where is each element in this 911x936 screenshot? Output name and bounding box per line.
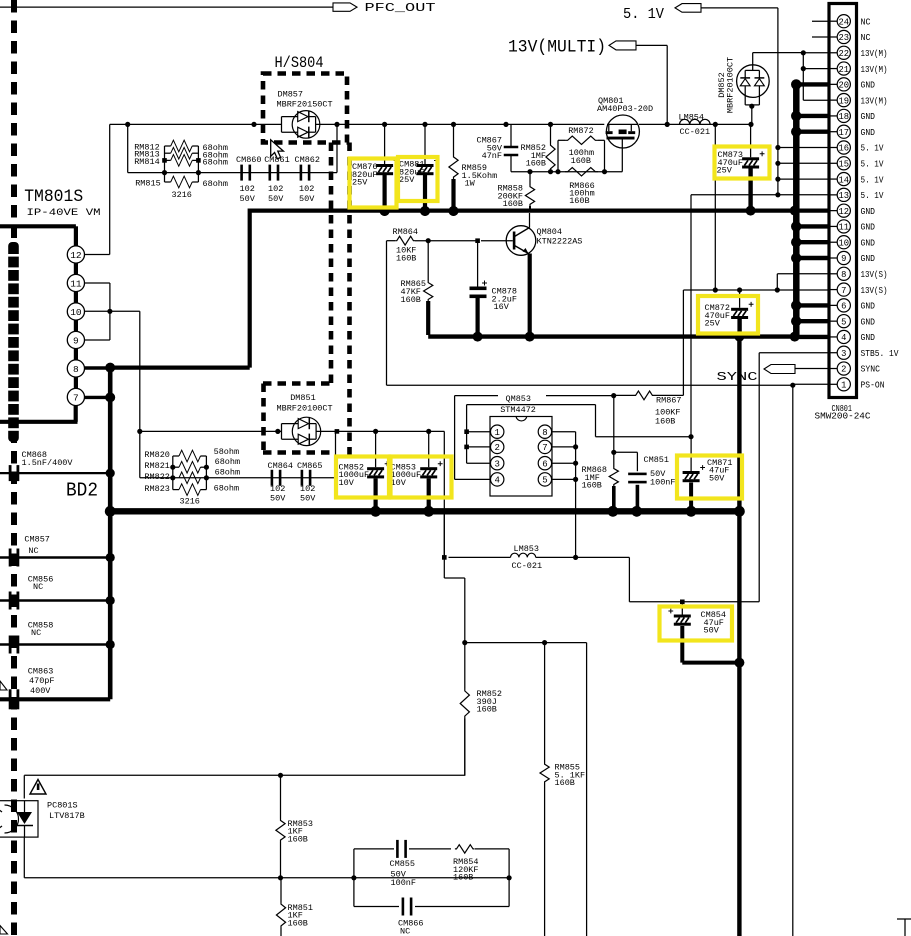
svg-text:160B: 160B xyxy=(555,778,575,788)
svg-text:PFC_OUT: PFC_OUT xyxy=(365,1,436,15)
svg-text:13V(M): 13V(M) xyxy=(861,96,888,106)
svg-text:CM863: CM863 xyxy=(28,667,54,677)
svg-text:13: 13 xyxy=(839,191,850,201)
svg-text:RM814: RM814 xyxy=(134,157,160,167)
svg-text:102: 102 xyxy=(268,184,283,194)
svg-text:STM4472: STM4472 xyxy=(500,405,536,415)
svg-text:RM864: RM864 xyxy=(393,227,419,237)
svg-text:58ohm: 58ohm xyxy=(214,447,240,457)
svg-text:25V: 25V xyxy=(399,175,415,185)
svg-text:RM872: RM872 xyxy=(568,126,594,136)
svg-text:IP-40VE VM: IP-40VE VM xyxy=(27,207,101,219)
svg-text:11: 11 xyxy=(839,223,850,233)
svg-text:TM801S: TM801S xyxy=(24,187,83,207)
svg-text:50V: 50V xyxy=(268,194,284,204)
svg-text:RM821: RM821 xyxy=(144,461,170,471)
svg-text:160B: 160B xyxy=(569,196,589,206)
svg-text:102: 102 xyxy=(299,184,314,194)
svg-text:16V: 16V xyxy=(494,302,510,312)
svg-text:5. 1V: 5. 1V xyxy=(861,159,885,169)
svg-text:3216: 3216 xyxy=(172,190,192,200)
svg-text:CC-021: CC-021 xyxy=(512,561,543,571)
svg-text:7: 7 xyxy=(73,392,79,403)
svg-text:100nF: 100nF xyxy=(391,878,417,888)
svg-text:RM867: RM867 xyxy=(656,396,682,406)
svg-text:160B: 160B xyxy=(571,156,591,166)
svg-text:20: 20 xyxy=(839,81,850,91)
svg-text:RM815: RM815 xyxy=(135,178,161,188)
svg-text:7: 7 xyxy=(841,286,846,296)
svg-text:4: 4 xyxy=(841,333,846,343)
svg-text:50V: 50V xyxy=(300,494,316,504)
svg-text:GND: GND xyxy=(861,81,876,91)
svg-text:CC-021: CC-021 xyxy=(680,127,711,137)
svg-text:68ohm: 68ohm xyxy=(215,457,241,467)
svg-text:AM40P03-20D: AM40P03-20D xyxy=(597,104,653,114)
svg-text:SMW200-24C: SMW200-24C xyxy=(815,410,871,421)
svg-text:SYNC: SYNC xyxy=(717,370,758,384)
svg-text:NC: NC xyxy=(400,926,410,936)
svg-text:5: 5 xyxy=(542,476,547,486)
svg-text:CM855: CM855 xyxy=(390,859,416,869)
svg-text:KTN2222AS: KTN2222AS xyxy=(537,236,583,246)
svg-text:CM865: CM865 xyxy=(297,461,323,471)
svg-text:15: 15 xyxy=(839,159,850,169)
svg-text:NC: NC xyxy=(28,546,38,556)
svg-text:25V: 25V xyxy=(717,166,733,176)
svg-text:160B: 160B xyxy=(401,295,421,305)
svg-text:22: 22 xyxy=(839,49,850,59)
svg-text:5. 1V: 5. 1V xyxy=(861,175,885,185)
svg-text:1W: 1W xyxy=(465,179,476,189)
svg-text:47nF: 47nF xyxy=(482,151,502,161)
svg-text:GND: GND xyxy=(861,128,876,138)
svg-text:50V: 50V xyxy=(240,194,256,204)
svg-text:PS-ON: PS-ON xyxy=(861,381,885,391)
svg-text:GND: GND xyxy=(861,238,876,248)
svg-text:5. 1V: 5. 1V xyxy=(861,144,885,154)
svg-text:CM851: CM851 xyxy=(644,455,670,465)
svg-text:160B: 160B xyxy=(453,873,473,883)
svg-text:QM853: QM853 xyxy=(506,394,532,404)
svg-text:160B: 160B xyxy=(582,481,602,491)
svg-text:4: 4 xyxy=(494,476,499,486)
svg-text:13V(M): 13V(M) xyxy=(861,49,888,59)
svg-text:102: 102 xyxy=(270,484,285,494)
svg-text:1: 1 xyxy=(841,381,846,391)
svg-text:MBRF20150CT: MBRF20150CT xyxy=(277,100,333,110)
svg-text:7: 7 xyxy=(542,443,547,453)
svg-text:5: 5 xyxy=(841,317,846,327)
svg-text:50V: 50V xyxy=(299,194,315,204)
svg-text:10: 10 xyxy=(839,238,850,248)
svg-text:RM823: RM823 xyxy=(144,484,170,494)
svg-text:CM860: CM860 xyxy=(236,155,262,165)
svg-text:5. 1V: 5. 1V xyxy=(623,7,664,23)
svg-text:160B: 160B xyxy=(288,834,308,844)
svg-text:RM822: RM822 xyxy=(144,472,170,482)
svg-text:MBRF20100CT: MBRF20100CT xyxy=(726,57,736,113)
svg-text:12: 12 xyxy=(839,207,850,217)
svg-text:400V: 400V xyxy=(30,686,51,696)
svg-text:18: 18 xyxy=(839,112,850,122)
svg-text:2: 2 xyxy=(494,443,499,453)
svg-text:DM851: DM851 xyxy=(290,393,316,403)
svg-text:3: 3 xyxy=(841,349,846,359)
svg-text:25V: 25V xyxy=(352,178,368,188)
svg-text:NC: NC xyxy=(33,582,43,592)
svg-text:9: 9 xyxy=(73,335,79,346)
svg-text:11: 11 xyxy=(70,278,82,289)
svg-text:DM857: DM857 xyxy=(278,90,304,100)
svg-text:NC: NC xyxy=(31,628,41,638)
svg-text:21: 21 xyxy=(839,65,850,75)
svg-text:160B: 160B xyxy=(503,199,523,209)
svg-text:68ohm: 68ohm xyxy=(215,467,241,477)
svg-text:GND: GND xyxy=(861,333,876,343)
svg-text:6: 6 xyxy=(542,459,547,469)
svg-text:68ohm: 68ohm xyxy=(214,483,240,493)
svg-text:50V: 50V xyxy=(270,494,286,504)
svg-text:68ohm: 68ohm xyxy=(203,179,229,189)
svg-text:102: 102 xyxy=(240,184,255,194)
svg-text:GND: GND xyxy=(861,223,876,233)
svg-text:160B: 160B xyxy=(477,705,497,715)
svg-text:RM820: RM820 xyxy=(144,450,170,460)
svg-text:NC: NC xyxy=(861,33,872,43)
svg-text:MBRF20100CT: MBRF20100CT xyxy=(277,404,333,414)
svg-text:25V: 25V xyxy=(705,319,721,329)
svg-text:GND: GND xyxy=(861,302,876,312)
svg-text:CM862: CM862 xyxy=(295,155,321,165)
svg-text:23: 23 xyxy=(839,33,850,43)
svg-text:GND: GND xyxy=(861,207,876,217)
svg-text:8: 8 xyxy=(542,428,547,438)
svg-text:9: 9 xyxy=(841,254,846,264)
svg-text:50V: 50V xyxy=(704,626,720,636)
svg-text:68ohm: 68ohm xyxy=(203,158,229,168)
svg-text:H/S804: H/S804 xyxy=(275,54,324,72)
svg-text:BD2: BD2 xyxy=(66,480,98,502)
svg-text:SYNC: SYNC xyxy=(861,365,881,375)
svg-text:CM864: CM864 xyxy=(268,461,294,471)
svg-text:LM853: LM853 xyxy=(514,544,540,554)
svg-text:GND: GND xyxy=(861,112,876,122)
svg-text:13V(M): 13V(M) xyxy=(861,65,888,75)
svg-text:13V(MULTI): 13V(MULTI) xyxy=(508,38,606,58)
svg-text:6: 6 xyxy=(841,302,846,312)
svg-text:160B: 160B xyxy=(526,159,546,169)
svg-text:GND: GND xyxy=(861,317,876,327)
svg-text:24: 24 xyxy=(839,17,850,27)
svg-text:3216: 3216 xyxy=(180,497,200,507)
svg-text:14: 14 xyxy=(839,175,850,185)
svg-text:STB5. 1V: STB5. 1V xyxy=(861,349,900,359)
svg-text:10V: 10V xyxy=(391,478,407,488)
svg-text:3: 3 xyxy=(494,459,499,469)
svg-text:16: 16 xyxy=(839,144,850,154)
svg-text:8: 8 xyxy=(841,270,846,280)
svg-text:CM857: CM857 xyxy=(24,535,50,545)
svg-text:12: 12 xyxy=(70,250,82,261)
svg-text:13V(S): 13V(S) xyxy=(861,286,888,296)
svg-text:13V(S): 13V(S) xyxy=(861,270,888,280)
svg-text:LTV817B: LTV817B xyxy=(49,811,85,821)
svg-text:17: 17 xyxy=(839,128,850,138)
svg-text:10V: 10V xyxy=(339,478,355,488)
svg-text:160B: 160B xyxy=(288,918,308,928)
svg-text:8: 8 xyxy=(73,364,79,375)
svg-text:160B: 160B xyxy=(396,253,416,263)
svg-text:1: 1 xyxy=(494,428,499,438)
svg-text:160B: 160B xyxy=(655,416,675,426)
svg-text:2: 2 xyxy=(841,365,846,375)
svg-text:PC801S: PC801S xyxy=(47,800,78,810)
svg-text:NC: NC xyxy=(861,17,872,27)
svg-text:102: 102 xyxy=(300,484,315,494)
svg-text:10: 10 xyxy=(70,307,82,318)
svg-text:470pF: 470pF xyxy=(29,676,55,686)
svg-text:5. 1V: 5. 1V xyxy=(861,191,885,201)
svg-text:19: 19 xyxy=(839,96,850,106)
svg-text:GND: GND xyxy=(861,254,876,264)
svg-text:50V: 50V xyxy=(709,473,725,483)
svg-text:1.5nF/400V: 1.5nF/400V xyxy=(22,458,74,468)
svg-text:100nF: 100nF xyxy=(650,478,676,488)
